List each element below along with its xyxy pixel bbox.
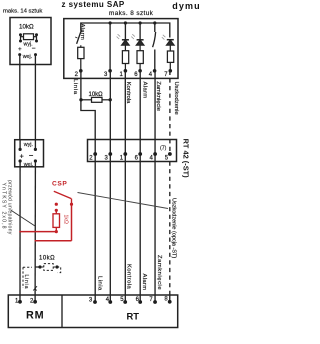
svg-text:10kΩ: 10kΩ <box>39 256 55 262</box>
terminal numbers of top box <box>75 72 169 78</box>
wire left column 1 lower (B2 to RM terminal 1) <box>19 161 21 301</box>
leader line to cable text <box>11 210 35 226</box>
svg-text:wej.: wej. <box>23 54 32 60</box>
detector base box B1 (top-left) <box>10 18 51 65</box>
wire left column 2 lower (B2 to RM terminal 2) <box>34 161 36 301</box>
svg-text:RT: RT <box>127 311 140 322</box>
svg-text:CSP: CSP <box>52 181 67 188</box>
svg-text:dymu: dymu <box>172 1 200 11</box>
svg-text:Uszkodzenie (opcja -ST): Uszkodzenie (opcja -ST) <box>171 198 177 258</box>
detector base box B2 (middle-left) <box>15 140 44 167</box>
wire relay 5 to RT 8 dashed <box>169 162 171 296</box>
wire terminal 3 to relay 3 <box>109 71 111 302</box>
wire Alarm (terminal 6 to relay 6) <box>139 71 141 302</box>
svg-text:10kΩ: 10kΩ <box>19 24 34 31</box>
terminal dots of top box <box>79 69 172 73</box>
svg-text:Linia: Linia <box>72 79 78 95</box>
svg-text:RM: RM <box>26 310 44 322</box>
divider RM/RT <box>61 295 63 328</box>
resistor R5 10k (between Linia and 3) <box>79 92 112 103</box>
svg-text:Alarm: Alarm <box>141 274 147 291</box>
diagonal cable marker line <box>78 193 169 209</box>
svg-text:+: + <box>18 46 22 53</box>
svg-text:Alarm: Alarm <box>79 24 85 41</box>
svg-text:maks. 14 sztuk: maks. 14 sztuk <box>3 9 42 15</box>
svg-text:Uszkodzenie: Uszkodzenie <box>173 82 179 115</box>
svg-text:−: − <box>29 151 34 160</box>
svg-text:maks. 8 sztuk: maks. 8 sztuk <box>109 10 154 17</box>
bus junction dots <box>109 21 157 24</box>
relay terminal numbers <box>89 155 169 161</box>
wire Kontrola (terminal 1 to relay 1) <box>124 71 126 302</box>
strip terminal dots <box>18 300 172 304</box>
red wire to line 1 <box>19 231 56 233</box>
smoke detector box (top, maks. 8 sztuk) <box>64 19 178 79</box>
resistor R2 (Kontrola column) <box>122 45 128 71</box>
wire stubs into B2 <box>19 140 21 150</box>
LED D2 (Alarm-out column) <box>131 23 144 45</box>
wire Linia upper (terminal 2 with jog) <box>81 71 95 302</box>
break mark on wire 2 <box>33 286 37 290</box>
red node at resistor bottom <box>55 230 58 233</box>
LED D1 (Kontrola column) <box>117 23 130 45</box>
svg-text:Kontrola: Kontrola <box>126 264 132 290</box>
resistor R6 1k (red) <box>53 210 60 231</box>
red right branch wire <box>71 204 73 241</box>
svg-text:Kontrola: Kontrola <box>125 82 131 104</box>
pin dots of R-B1 <box>19 33 38 42</box>
resistor R3 (Alarm-out column) <box>137 45 143 71</box>
svg-text:wyj.: wyj. <box>23 142 33 148</box>
svg-text:z systemu SAP: z systemu SAP <box>62 0 125 9</box>
optional EOL resistor R7 10k (dashed) <box>35 256 61 273</box>
svg-text:(7): (7) <box>160 146 167 152</box>
svg-text:Linia: Linia <box>96 276 102 291</box>
svg-text:Zamknięcie: Zamknięcie <box>156 255 162 290</box>
resistor R4 (Uszkodzenie column) <box>167 45 173 71</box>
svg-text:RT 42 (-ST): RT 42 (-ST) <box>182 139 191 179</box>
switch S1 Alarm (blade) <box>77 30 82 44</box>
dashed continuation of Linia (bottom left) <box>23 267 32 288</box>
svg-text:Alarm: Alarm <box>142 82 148 99</box>
strip terminal numbers <box>15 297 168 305</box>
svg-text:Zamknięcie: Zamknięcie <box>155 81 161 111</box>
resistor R1 (Alarm column) <box>78 45 84 71</box>
wire column t3 (bus to terminal 3) <box>109 23 111 71</box>
terminal strip RM/RT box <box>8 295 177 328</box>
wire left column 1 (from B1 to RM 1) <box>19 55 21 140</box>
wej. pin dots in B1 <box>18 53 21 56</box>
wire Uszkodzenie dashed (terminal 7 to relay 5) <box>169 71 171 154</box>
svg-text:−: − <box>32 46 36 53</box>
svg-text:YnTKSY 2x0,8: YnTKSY 2x0,8 <box>1 183 7 230</box>
relay terminal dots <box>93 152 172 156</box>
svg-text:1kΩ: 1kΩ <box>62 215 68 224</box>
CSP switch blade (red) <box>54 191 72 198</box>
wire left column 2 (from B1 to RM 2) <box>34 55 36 140</box>
wyj pin dots in B2 <box>19 148 22 151</box>
switch S2 Zamkniecie (blade) <box>154 23 156 32</box>
svg-text:+: + <box>20 151 25 160</box>
red wire to line 2 <box>35 240 72 242</box>
svg-text:wej.: wej. <box>23 162 34 168</box>
svg-text:Linia: Linia <box>23 275 29 290</box>
relay box RT42 <box>88 140 177 162</box>
wej pin dots in B2 <box>19 159 22 162</box>
LED D3 (Uszkodzenie column) <box>162 35 175 45</box>
CSP contact dots (red) <box>70 203 73 206</box>
bus wire inside top box <box>81 23 170 38</box>
resistor R-B1 (horizontal) <box>21 34 37 42</box>
wire Zamkniecie (terminal 4 to relay 4) <box>154 71 156 302</box>
